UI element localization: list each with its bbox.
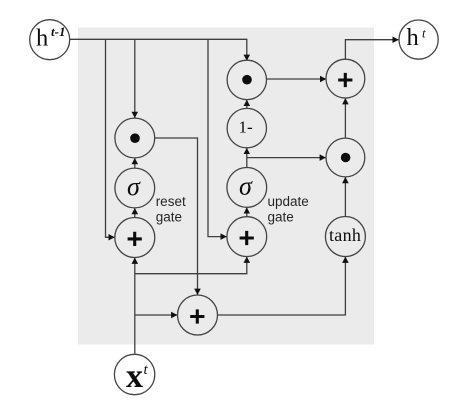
wire: left sigma up to left multiply — [134, 158, 136, 168]
wire: right multiply up into right plus — [344, 98, 346, 138]
op: right plus (h(t) combiner) — [326, 59, 365, 98]
wire: 1- node up into top-middle multiply — [246, 100, 248, 108]
node x(t) input — [114, 354, 154, 395]
wire: bottom plus right then up into tanh — [218, 257, 346, 315]
op: middle sigma (update gate) — [227, 168, 267, 208]
op: tanh (candidate activation) — [325, 217, 365, 257]
wire: left plus up to left sigma — [134, 208, 136, 217]
wire: h(t-1) output line across top into top-middle multiply — [70, 39, 247, 60]
wire: x(t) branch right into bottom plus — [135, 314, 177, 316]
svg-text:t-1: t-1 — [51, 24, 65, 39]
wire: middle sigma up into 1- node — [246, 148, 248, 167]
svg-text:x: x — [126, 358, 143, 395]
svg-text:reset: reset — [156, 194, 186, 209]
svg-text:t: t — [422, 26, 426, 41]
node h(t-1) input — [30, 20, 70, 60]
svg-text:tanh: tanh — [329, 225, 361, 245]
wire: left multiply right then down into bottom plus — [155, 138, 198, 295]
svg-text:1-: 1- — [239, 118, 254, 137]
wire: x(t) up into left plus — [134, 258, 136, 355]
wire: top-middle multiply right into right plus — [267, 78, 327, 80]
wire: middle plus up into middle sigma — [246, 208, 248, 217]
wire: x(t) branch right then up into middle plus — [135, 257, 247, 274]
svg-text:σ: σ — [239, 172, 253, 201]
svg-text:gate: gate — [268, 210, 294, 225]
wire: branch down at x=208 into middle plus — [208, 39, 227, 236]
wire: update-gate branch right into right multiply — [247, 157, 326, 159]
op: left plus (reset gate preactivation) — [115, 218, 155, 258]
op: middle plus (update gate preactivation) — [227, 217, 267, 257]
op: top-middle multiply ((1-z) * h) — [227, 60, 266, 99]
wire: tanh up into right multiply — [344, 177, 346, 216]
wire: branch down at x=105.5 into left plus — [106, 39, 115, 237]
svg-text:σ: σ — [127, 172, 141, 201]
node h(t) output — [399, 20, 438, 59]
op: right multiply (z * htilde) — [326, 138, 365, 177]
op: 1- node — [227, 108, 266, 147]
svg-text:h: h — [407, 24, 419, 51]
gray cell body box — [78, 28, 374, 345]
svg-text:h: h — [36, 25, 48, 52]
op: left multiply (reset applied to h) — [115, 118, 155, 158]
wire: right plus up then right into h(t) — [345, 40, 398, 60]
op: bottom plus (candidate preactivation) — [178, 295, 218, 335]
wire: branch down at x=134.8 into left multiply — [134, 39, 136, 117]
svg-text:gate: gate — [156, 210, 182, 225]
op: left sigma (reset gate) — [115, 168, 155, 208]
svg-text:update: update — [268, 194, 309, 209]
